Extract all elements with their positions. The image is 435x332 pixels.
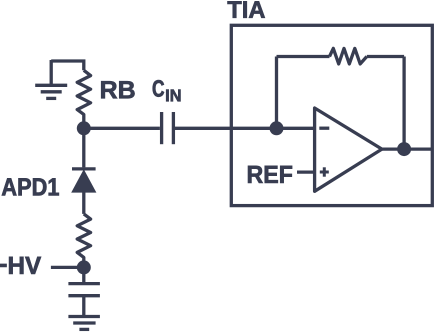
resistor RB xyxy=(77,70,90,122)
wire feedback right vertical down to output node xyxy=(402,57,405,150)
wire REF to non-inverting input xyxy=(297,170,315,173)
diode APD1 (cathode bar) xyxy=(72,167,96,170)
capacitor CIN xyxy=(162,112,174,144)
label RB xyxy=(101,81,134,98)
wire feedback left vertical xyxy=(275,57,278,129)
wire -HV label to node B xyxy=(51,266,84,269)
label REF xyxy=(248,166,292,183)
node A (RB / APD1 / CIN junction) xyxy=(77,121,91,135)
wire node A down to APD1 xyxy=(82,128,85,167)
op-amp inverting input symbol (minus) xyxy=(319,127,329,130)
wire op-amp output to box edge xyxy=(381,147,432,150)
label CIN xyxy=(153,80,164,97)
label APD1 xyxy=(2,178,59,195)
TIA box xyxy=(231,25,432,205)
label -HV xyxy=(0,257,41,274)
capacitor (HV bypass) xyxy=(68,284,100,317)
ground (top left) xyxy=(35,60,67,98)
wire feedback top right horizontal xyxy=(367,55,404,58)
node C (inverting input junction) xyxy=(270,121,284,135)
label TIA xyxy=(228,1,265,18)
node B (-HV junction) xyxy=(77,260,91,274)
node D (output junction) xyxy=(397,142,411,156)
diode APD1 (triangle) xyxy=(71,169,96,192)
wire node A to CIN xyxy=(84,127,160,130)
wire CIN to op-amp inverting input xyxy=(173,127,314,130)
ground (bottom) xyxy=(68,317,100,330)
resistor (feedback) xyxy=(330,48,367,64)
wire ground to RB top xyxy=(51,61,84,70)
resistor (bias, unlabeled) xyxy=(77,214,90,262)
op-amp U1 xyxy=(315,108,382,191)
wire APD1 to lower resistor xyxy=(82,192,85,214)
wire feedback top left horizontal xyxy=(277,55,330,58)
wire node B to bypass capacitor xyxy=(82,267,85,283)
op-amp non-inverting input symbol (plus) xyxy=(320,167,329,176)
